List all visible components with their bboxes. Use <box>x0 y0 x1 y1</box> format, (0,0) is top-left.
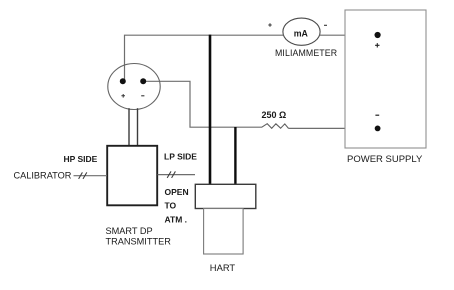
milliammeter + polarity label <box>268 23 271 26</box>
transmitter terminal head (circle) <box>108 64 160 110</box>
smart DP transmitter body <box>107 146 157 206</box>
wire: resistor to power supply - terminal <box>289 127 378 129</box>
transmitter + polarity label <box>121 94 125 98</box>
power supply - terminal dot <box>375 125 381 131</box>
svg-text:HART: HART <box>210 262 236 273</box>
svg-text:LP SIDE: LP SIDE <box>164 152 197 162</box>
break symbol slash 1 on LP line <box>167 171 171 178</box>
transmitter - terminal dot <box>140 78 146 84</box>
milliammeter - polarity label <box>324 24 327 26</box>
wire: calibrator line to HP side <box>74 175 108 177</box>
break symbol slash 2 on LP line <box>172 171 176 178</box>
wire: LP side vent line <box>158 174 196 176</box>
break symbol slash 2 on calibrator line <box>83 172 87 179</box>
svg-text:250 Ω: 250 Ω <box>262 110 287 120</box>
svg-text:MILIAMMETER: MILIAMMETER <box>275 48 337 58</box>
wire: milliammeter - to power supply + terminal <box>320 34 377 36</box>
svg-text:mA: mA <box>294 29 309 39</box>
power supply + terminal dot <box>375 32 381 38</box>
svg-text:HP SIDE: HP SIDE <box>64 154 98 164</box>
resistor R1 250 ohm zigzag <box>262 124 289 129</box>
neck line right between head and body <box>137 108 139 145</box>
svg-text:SMART DP: SMART DP <box>106 226 153 236</box>
wire: transmitter - terminal right and down to resistor node <box>146 81 262 127</box>
power supply - polarity label <box>375 114 379 116</box>
power supply box <box>345 10 426 148</box>
HART communicator top box <box>195 184 256 208</box>
wire: transmitter + terminal up and right to milliammeter + <box>125 35 284 81</box>
neck line left between head and body <box>128 108 130 145</box>
power supply + polarity label <box>375 43 379 47</box>
svg-text:ATM .: ATM . <box>165 214 188 224</box>
wire: HART + lead (thick) to top loop <box>209 35 212 185</box>
break symbol slash 1 on calibrator line <box>79 172 83 179</box>
svg-text:TRANSMITTER: TRANSMITTER <box>106 236 172 246</box>
svg-text:POWER SUPPLY: POWER SUPPLY <box>347 154 423 165</box>
HART communicator body box <box>204 209 244 255</box>
milliammeter M1 body <box>283 18 320 45</box>
svg-text:CALIBRATOR: CALIBRATOR <box>14 170 72 180</box>
transmitter + terminal dot <box>120 78 126 84</box>
svg-text:OPEN: OPEN <box>165 187 189 197</box>
wire: HART - lead (thick) to resistor node <box>234 127 236 185</box>
svg-text:TO: TO <box>165 201 177 211</box>
transmitter - polarity label <box>141 95 144 97</box>
